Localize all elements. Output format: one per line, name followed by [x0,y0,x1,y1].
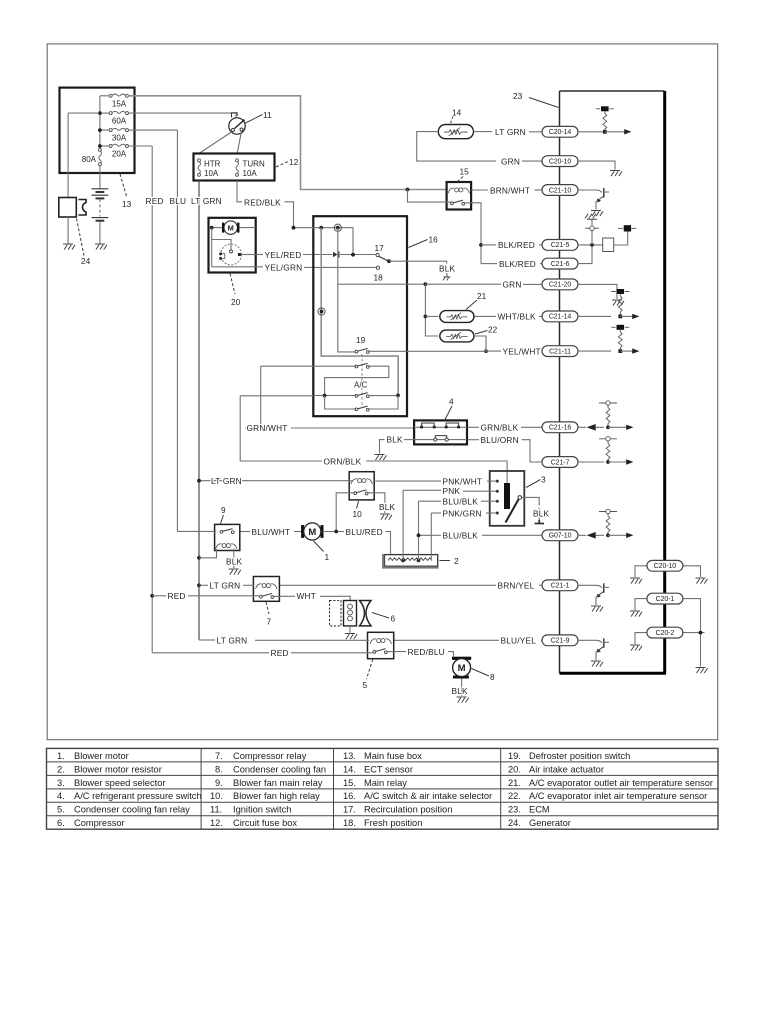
switch contacts of relay 10 [354,490,368,495]
coil of main relay 15 [448,188,470,193]
wire feed branch to defroster switch [338,228,355,352]
wire C20-10 left ground [635,566,648,577]
svg-text:ORN/BLK: ORN/BLK [324,456,362,466]
wire YEL/GRN [256,266,263,268]
wire BRN/YEL from compressor relay coil [279,584,496,586]
svg-text:C21-6: C21-6 [551,261,570,268]
svg-text:GRN/BLK: GRN/BLK [481,423,519,433]
terminal BLU/BLK [496,500,499,503]
svg-text:10A: 10A [204,169,219,178]
wire through pressure switch lower [414,439,467,441]
wire fan motor BLK [461,679,463,697]
wire C20-14 internal [578,131,600,133]
svg-text:HTR: HTR [204,160,221,169]
pull-up at C21-7 [578,437,633,465]
connector marker on YEL/RED [333,252,338,257]
condenser cooling fan relay 5 box [368,632,394,658]
wire BLK/RED to connector [539,244,542,246]
wire BLU/ORN to C21-7 [467,435,578,467]
internal contact box C21-5 [603,238,614,252]
label 21 leader [466,300,477,310]
svg-text:2: 2 [454,556,459,566]
svg-text:16.: 16. [343,791,356,801]
ECT sensor 14 body [438,125,473,139]
wire BLU/YEL to connector [541,639,542,641]
svg-text:23.: 23. [508,805,521,815]
svg-text:LT GRN: LT GRN [210,581,241,591]
svg-text:Compressor relay: Compressor relay [233,751,307,761]
svg-text:C21-7: C21-7 [551,459,570,466]
svg-text:BLU/ORN: BLU/ORN [481,435,519,445]
label 7 leader [266,602,269,614]
bus labels [146,196,222,206]
svg-text:C20-2: C20-2 [656,630,675,637]
coil of relay 7 [256,584,278,589]
svg-text:BLU/WHT: BLU/WHT [252,527,291,537]
wire BLK at pressure switch [404,439,414,441]
svg-text:G07-10: G07-10 [549,533,572,540]
wire RED/BLK feed inside selector [294,228,354,255]
junction actuator internal [210,226,214,230]
svg-text:Generator: Generator [529,818,571,828]
junction LT GRN bus relay 9 coil [197,556,201,560]
svg-text:10: 10 [353,509,363,519]
svg-text:Blower fan high relay: Blower fan high relay [233,791,320,801]
fuse 80A vertical [82,148,102,165]
wire BRN/YEL to connector [539,584,542,586]
junction feed to relay switch [406,188,410,192]
connector C21-20 [542,279,578,290]
junction internal C21-11 [618,349,622,353]
svg-text:3.: 3. [57,778,65,788]
junction LT GRN bus relay 10 [197,479,201,483]
label 16 leader [409,240,428,248]
svg-text:BLK: BLK [387,435,404,445]
wire BLU/YEL from fan relay coil [394,639,499,641]
wire BLU/YEL to C21-9 [394,635,578,646]
junction RED/BLK at actuator wire [292,226,296,230]
wire ECT sensor to GRN [417,132,496,162]
label 3 leader [526,480,541,488]
svg-text:30A: 30A [112,133,127,142]
label 13 [120,174,132,209]
wire internal G07-10 [578,534,586,536]
connector C21-16 [542,422,578,433]
svg-text:5: 5 [363,680,368,690]
svg-text:C21-16: C21-16 [549,425,572,432]
wire GRN/BLK from pressure switch [467,426,479,428]
wire C20-1 right [682,599,701,667]
fresh position 18 [374,266,384,282]
svg-text:C21-14: C21-14 [549,314,572,321]
label 2 leader [440,560,451,562]
coil of relay 10 [351,479,373,484]
svg-text:PNK/GRN: PNK/GRN [443,508,482,518]
wire sensor common net [338,283,426,285]
junction C20-1 C20-2 common [699,631,703,635]
wire feed branch to A/C switch [321,228,398,396]
wire BLU bus to relay 9 [177,530,216,532]
ground compressor [345,634,357,640]
wire YEL/GRN to fresh contact [304,266,376,268]
wire C21-14 internal [578,315,611,317]
svg-text:1.: 1. [57,751,65,761]
wire BLK to ground [380,440,385,454]
svg-text:BRN/YEL: BRN/YEL [498,581,535,591]
svg-text:C21-10: C21-10 [549,187,572,194]
svg-text:BLU/RED: BLU/RED [346,527,383,537]
svg-text:LT GRN: LT GRN [191,196,222,206]
junction arm output [387,259,391,263]
wire actuator pot wiper feed [212,240,231,250]
A/C evaporator outlet air temperature sensor 21 [440,291,487,322]
connector C20-1 body [647,593,683,604]
junction BLK/RED branch [479,243,483,247]
svg-text:18.: 18. [343,818,356,828]
arrow output C21-14 [620,315,633,317]
ground C20-10 right [696,578,708,584]
wire ignition switch to HTR fuse [199,132,232,154]
wire PNK [403,486,496,496]
svg-text:22.: 22. [508,791,521,801]
ground BLK relay 10 [380,514,392,520]
wire WHT/BLK to connector [539,315,542,317]
wire GRN to connector [522,160,542,162]
wire YEL/RED to connector marker [303,254,333,256]
input marker and pull-up at G07-10 [578,509,633,538]
wire 60A fuse to ignition switch [128,113,236,117]
blower fan high relay 10 box [349,472,374,500]
svg-text:BLK: BLK [533,508,550,518]
wire ORN/BLK [240,396,507,483]
transistor driver at C21-1 [578,585,602,588]
svg-text:19: 19 [356,335,366,345]
blower motor 1 [301,523,323,540]
ground BLK pressure switch [375,455,387,461]
connector C20-10 [542,156,578,167]
switch contacts of relay 9 [220,529,234,534]
wire C21-5 to test point [591,231,593,245]
svg-text:10.: 10. [210,791,223,801]
pull-up resistor at G07-10 [599,509,617,534]
junction BLU/BLK to ECM [417,533,421,537]
wire RED into relay 5 switch [291,652,375,654]
svg-text:RED/BLK: RED/BLK [244,197,281,207]
svg-text:BLU/BLK: BLU/BLK [443,497,479,507]
blower fan main relay 9 box [215,524,240,550]
junction feed branch A [319,226,323,230]
svg-text:7.: 7. [215,751,223,761]
wire BLK/RED to C21-6 [481,258,578,269]
wire YEL/RED to recirculation contact [340,254,376,256]
linkage dashed gang [361,354,363,407]
wire PNK/WHT [376,480,442,482]
wire A/C second pole left [325,396,356,410]
svg-text:21.: 21. [508,778,521,788]
splice marker on feed branch [320,310,324,314]
A/C switch row [314,381,400,398]
svg-text:C20-14: C20-14 [549,129,572,136]
svg-text:GRN/WHT: GRN/WHT [247,423,288,433]
wire C21-11 internal [578,350,611,352]
legend column 1 [57,751,202,828]
wire BLK from intake selector [389,261,447,263]
fuse 30A [98,128,129,142]
wire BLU/RED to resistor [386,532,391,555]
svg-text:RED: RED [146,196,164,206]
wire GRN from sensor net [425,283,501,285]
svg-text:18: 18 [374,272,384,282]
svg-text:3: 3 [541,475,546,485]
wire BLU bus [176,130,178,531]
wire BLU/ORN to connector [522,440,543,462]
svg-text:GRN: GRN [501,156,520,166]
svg-text:22: 22 [488,325,498,335]
wire actuator internal vertical [211,228,213,267]
svg-text:RED: RED [271,648,289,658]
wire BLK ground stub [375,435,415,461]
wire internal C20-14 [600,131,605,133]
outer frame of schematic [47,44,718,740]
svg-text:WHT/BLK: WHT/BLK [498,312,537,322]
svg-text:7: 7 [267,617,272,627]
label 4 leader [445,406,452,420]
A/C switch contacts [355,393,369,398]
legend column 3 [343,751,492,828]
svg-text:Compressor: Compressor [74,818,125,828]
junction LT GRN bus relay 7 coil [197,583,201,587]
ECM 23 box thick edges [560,91,667,673]
ignition switch 11 body [229,118,245,134]
resistor element of resistor 2 [388,558,432,561]
svg-text:C21-9: C21-9 [551,638,570,645]
switch contacts of main relay 15 [451,200,465,205]
svg-text:M: M [458,663,466,674]
label 12 [276,162,288,168]
A/C switch second pole contacts [355,406,369,411]
wire internal contact to supply [614,232,628,246]
wire GRN/BLK to connector [521,426,542,428]
wire C20-10 to internal ground [578,161,615,169]
connector C20-10 right [630,560,708,583]
connector C20-2 body [647,627,683,638]
svg-text:C21-1: C21-1 [551,583,570,590]
arrow output G07-10 [608,534,627,536]
ground C20 common [696,668,708,674]
ground generator [63,244,75,250]
svg-text:YEL/WHT: YEL/WHT [503,346,541,356]
svg-text:BLK: BLK [439,264,456,274]
label 9 leader [221,515,224,524]
svg-text:12: 12 [289,157,299,167]
wire second pole to A/C switch feed [325,366,389,393]
defroster position switch 19 [355,335,369,353]
pull-up resistor at C21-11 [611,325,629,351]
coil of relay 9 [216,544,238,549]
compressor pulley [360,601,372,626]
svg-text:Blower motor resistor: Blower motor resistor [74,764,162,774]
switch second pole contacts [355,363,369,368]
connector C21-11 [542,346,578,357]
svg-text:LT GRN: LT GRN [211,476,242,486]
svg-text:C21-11: C21-11 [549,348,571,355]
ECM 23 box thin edges [560,91,665,673]
junction YEL/WHT at sensor 22 [484,349,488,353]
transistor driver at C21-9 [578,640,602,643]
wire internal C21-7 [578,461,604,463]
wire tap PNK vertical [402,490,404,560]
supply mark internal [624,225,631,231]
ground BLK relay 9 [229,569,241,575]
svg-text:BLK: BLK [226,556,243,566]
label 6 leader [372,613,389,619]
svg-text:Blower motor: Blower motor [74,751,129,761]
wire LT GRN bottom row [199,639,215,641]
wire YEL/WHT to connector [542,350,545,352]
wire BRN/WHT from main relay coil [471,189,488,191]
svg-text:10A: 10A [243,169,258,178]
wire LT GRN to relay 5 coil [255,639,369,641]
svg-text:15: 15 [460,167,470,177]
wire RED/BLU from relay 5 [386,651,406,653]
svg-text:GRN: GRN [503,280,522,290]
junction high relay tap [334,530,338,534]
legend column 2 [210,751,326,828]
svg-text:Blower speed selector: Blower speed selector [74,778,165,788]
ground C20-1 left [630,611,642,617]
svg-text:A/C: A/C [354,381,368,390]
compressor relay 7 box [253,577,279,602]
wire BLU/WHT to motor [294,531,302,533]
main relay 15 box [447,182,472,210]
svg-text:BLK: BLK [379,502,396,512]
svg-text:Circuit fuse box: Circuit fuse box [233,818,297,828]
junction A/C switch left [323,394,327,398]
svg-text:C20-10: C20-10 [549,158,572,165]
wire BLU/BLK from resistor tap [419,534,442,536]
recirculation position 17 [375,243,391,263]
wire from fuse box to generator [68,113,99,197]
svg-text:Main fuse box: Main fuse box [364,751,422,761]
svg-text:5.: 5. [57,805,65,815]
input marker and pull-up at C21-16 [578,401,633,431]
svg-text:BLK/RED: BLK/RED [498,240,535,250]
wire compressor to ground [349,626,351,633]
svg-text:9.: 9. [215,778,223,788]
wire WHT/BLK to C21-14 [474,311,611,322]
svg-text:17: 17 [375,243,385,253]
wire BRN/WHT to C21-10 [471,185,578,196]
fuse TURN vertical [236,159,239,162]
wire BLU/BLK to connector [482,534,542,536]
label 8 leader [472,669,490,677]
wire PNK/GRN [431,508,496,518]
main fuse box 13 [60,88,135,209]
wire LT GRN into relay 7 coil [243,584,255,586]
label 15 leader [457,177,463,183]
ground C20-10 left [630,578,642,584]
connector C20-14 [542,126,578,137]
wire WHT from relay 7 [272,595,295,597]
arrow output C21-16 [608,426,627,428]
wire BLK from switch arm 17 [389,261,456,280]
svg-text:6: 6 [391,614,396,624]
svg-text:11.: 11. [210,805,222,815]
wire A/C second pole right [368,395,398,409]
svg-text:BLK: BLK [452,686,469,696]
terminal PNK [496,490,499,493]
wire GRN/WHT [245,366,414,433]
svg-text:Defroster position switch: Defroster position switch [529,751,630,761]
svg-text:14.: 14. [343,764,356,774]
wire A/C switch output [368,395,396,397]
wire LT GRN to C20-14 [495,126,600,137]
svg-text:13.: 13. [343,751,356,761]
svg-text:6.: 6. [57,818,65,828]
position sensor of actuator 20 [221,244,242,265]
wire PNK/GRN [431,512,441,514]
wire C20-2 left ground [635,633,648,644]
svg-text:60A: 60A [112,116,127,125]
wire BLU/BLK to selector [419,497,497,507]
svg-text:C20-10: C20-10 [654,563,677,570]
svg-text:BLK/RED: BLK/RED [499,259,536,269]
connector C21-5 [542,240,578,251]
generator 24 [59,113,99,266]
svg-text:A/C evaporator outlet air temp: A/C evaporator outlet air temperature se… [529,778,713,788]
input marker C21-16 [587,424,600,431]
connector C21-7 [542,457,578,468]
internal net at C21-5/C21-6 [578,214,637,264]
svg-text:14: 14 [452,108,462,118]
ground fan motor [457,697,469,703]
switch arm intake selector [379,256,389,261]
label 20 leader [230,274,235,295]
wire fuse bus vertical [99,96,101,146]
wire main relay output to BLK/RED [464,203,482,264]
switch row B (2nd defroster contact) [314,363,389,393]
connector C21-1 [542,580,578,591]
wire LT GRN to relay 10 [199,480,352,482]
svg-text:21: 21 [477,291,487,301]
legend column 4 [508,751,713,828]
battery [92,166,109,250]
wire C20-10 right ground [682,566,701,577]
label 14 leader [450,117,453,125]
pressure contact pair 2 [445,426,448,429]
ECT sensor 14 [417,108,496,162]
wire RED to relay 7 [152,595,166,597]
wire internal C21-6 [578,247,592,264]
wire 15A fuse output to main relay feed [128,96,447,190]
svg-text:8: 8 [490,672,495,682]
svg-text:20: 20 [231,297,241,307]
svg-text:BLU/YEL: BLU/YEL [501,636,537,646]
svg-text:Condenser cooling fan relay: Condenser cooling fan relay [74,805,190,815]
wire BLU/BLK to G07-10 [419,530,579,541]
compressor 6 body [330,601,342,626]
driver transistor at C21-1 [578,583,609,611]
switch contacts of relay 7 [260,593,274,598]
label 5 leader [367,659,373,679]
coil of relay 5 [370,639,392,644]
wire tap BLU/BLK vertical [418,501,420,560]
condenser cooling fan 8 motor [452,657,471,660]
svg-text:C21-20: C21-20 [549,282,572,289]
ground ECM internal at C21-20 [612,300,624,306]
wire actuator motor lead [212,227,222,229]
svg-text:C20-1: C20-1 [656,596,675,603]
